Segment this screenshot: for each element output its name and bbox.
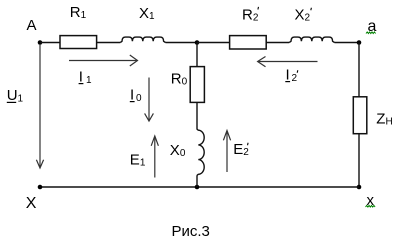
svg-text:R1: R1 <box>70 4 87 21</box>
wire X1 to top junction <box>166 42 198 44</box>
svg-text:U: U <box>7 87 18 104</box>
inductor X0 <box>197 129 204 175</box>
junction node top dot <box>195 40 200 45</box>
inductor X1 <box>120 37 165 42</box>
wire node a down to ZH <box>358 43 360 97</box>
node a terminal dot <box>357 40 362 45</box>
wire ZH down to node x <box>358 134 360 187</box>
resistor R1 <box>60 36 97 49</box>
svg-text:R2: R2 <box>242 6 259 23</box>
svg-text:A: A <box>27 17 37 34</box>
svg-text:Рис.3: Рис.3 <box>172 223 210 240</box>
wire R0 to X0 <box>196 102 198 129</box>
arrow I1 current (right) <box>69 55 138 66</box>
resistor R2' <box>230 36 267 49</box>
node X terminal dot <box>38 185 43 190</box>
arrow I2' current (left) <box>258 57 318 67</box>
bottom wire X to junction <box>40 186 197 188</box>
svg-text:I: I <box>79 69 83 86</box>
wire top junction to R2' <box>197 42 230 44</box>
svg-text:1: 1 <box>86 75 92 86</box>
svg-text:X: X <box>26 195 37 212</box>
spellcheck squiggle under a <box>366 32 376 34</box>
svg-text:E2: E2 <box>233 141 249 158</box>
arrow E1 emf (up) <box>151 136 158 178</box>
svg-text:I: I <box>130 87 134 104</box>
wire A to R1 <box>40 42 60 44</box>
svg-text:X1: X1 <box>139 5 155 22</box>
svg-text:X2: X2 <box>295 6 311 23</box>
arrow U1 voltage (down, node A toward X) <box>36 44 43 168</box>
junction node bottom dot <box>195 185 200 190</box>
svg-text:X0: X0 <box>170 142 186 159</box>
inductor X2' <box>289 37 334 42</box>
wire R2' to X2' <box>266 42 289 44</box>
wire top junction to R0 <box>196 43 198 67</box>
svg-text:1: 1 <box>18 94 24 105</box>
spellcheck squiggle under x <box>366 205 376 207</box>
svg-text:E1: E1 <box>130 151 146 168</box>
wire X0 to bottom junction <box>196 175 198 187</box>
bottom wire junction to x <box>197 186 359 188</box>
wire X2' to node a <box>335 42 360 44</box>
node A terminal dot <box>38 40 43 45</box>
arrow I0 current (down) <box>145 78 154 122</box>
arrow E2' emf (up) <box>223 131 230 173</box>
wire R1 to X1 <box>97 42 121 44</box>
svg-text:I: I <box>286 67 290 84</box>
svg-text:R0: R0 <box>171 71 188 88</box>
resistor R0 <box>190 67 204 103</box>
svg-text:2: 2 <box>292 73 298 84</box>
svg-text:ZH: ZH <box>376 110 392 127</box>
node x terminal dot <box>357 185 362 190</box>
load impedance ZH <box>353 97 367 134</box>
svg-text:0: 0 <box>136 93 142 104</box>
